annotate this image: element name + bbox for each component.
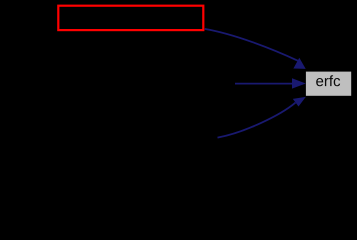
- node: red-outlined caller box (label hidden on black): [58, 6, 203, 30]
- arrowhead top: [293, 58, 305, 69]
- wire: middle edge to erfc: [235, 83, 293, 85]
- arrowhead bottom: [293, 97, 306, 107]
- wire: edge from red box to erfc: [205, 29, 298, 61]
- wire: bottom edge to erfc: [218, 103, 296, 138]
- node erfc: [306, 72, 351, 96]
- arrowhead middle: [292, 78, 306, 88]
